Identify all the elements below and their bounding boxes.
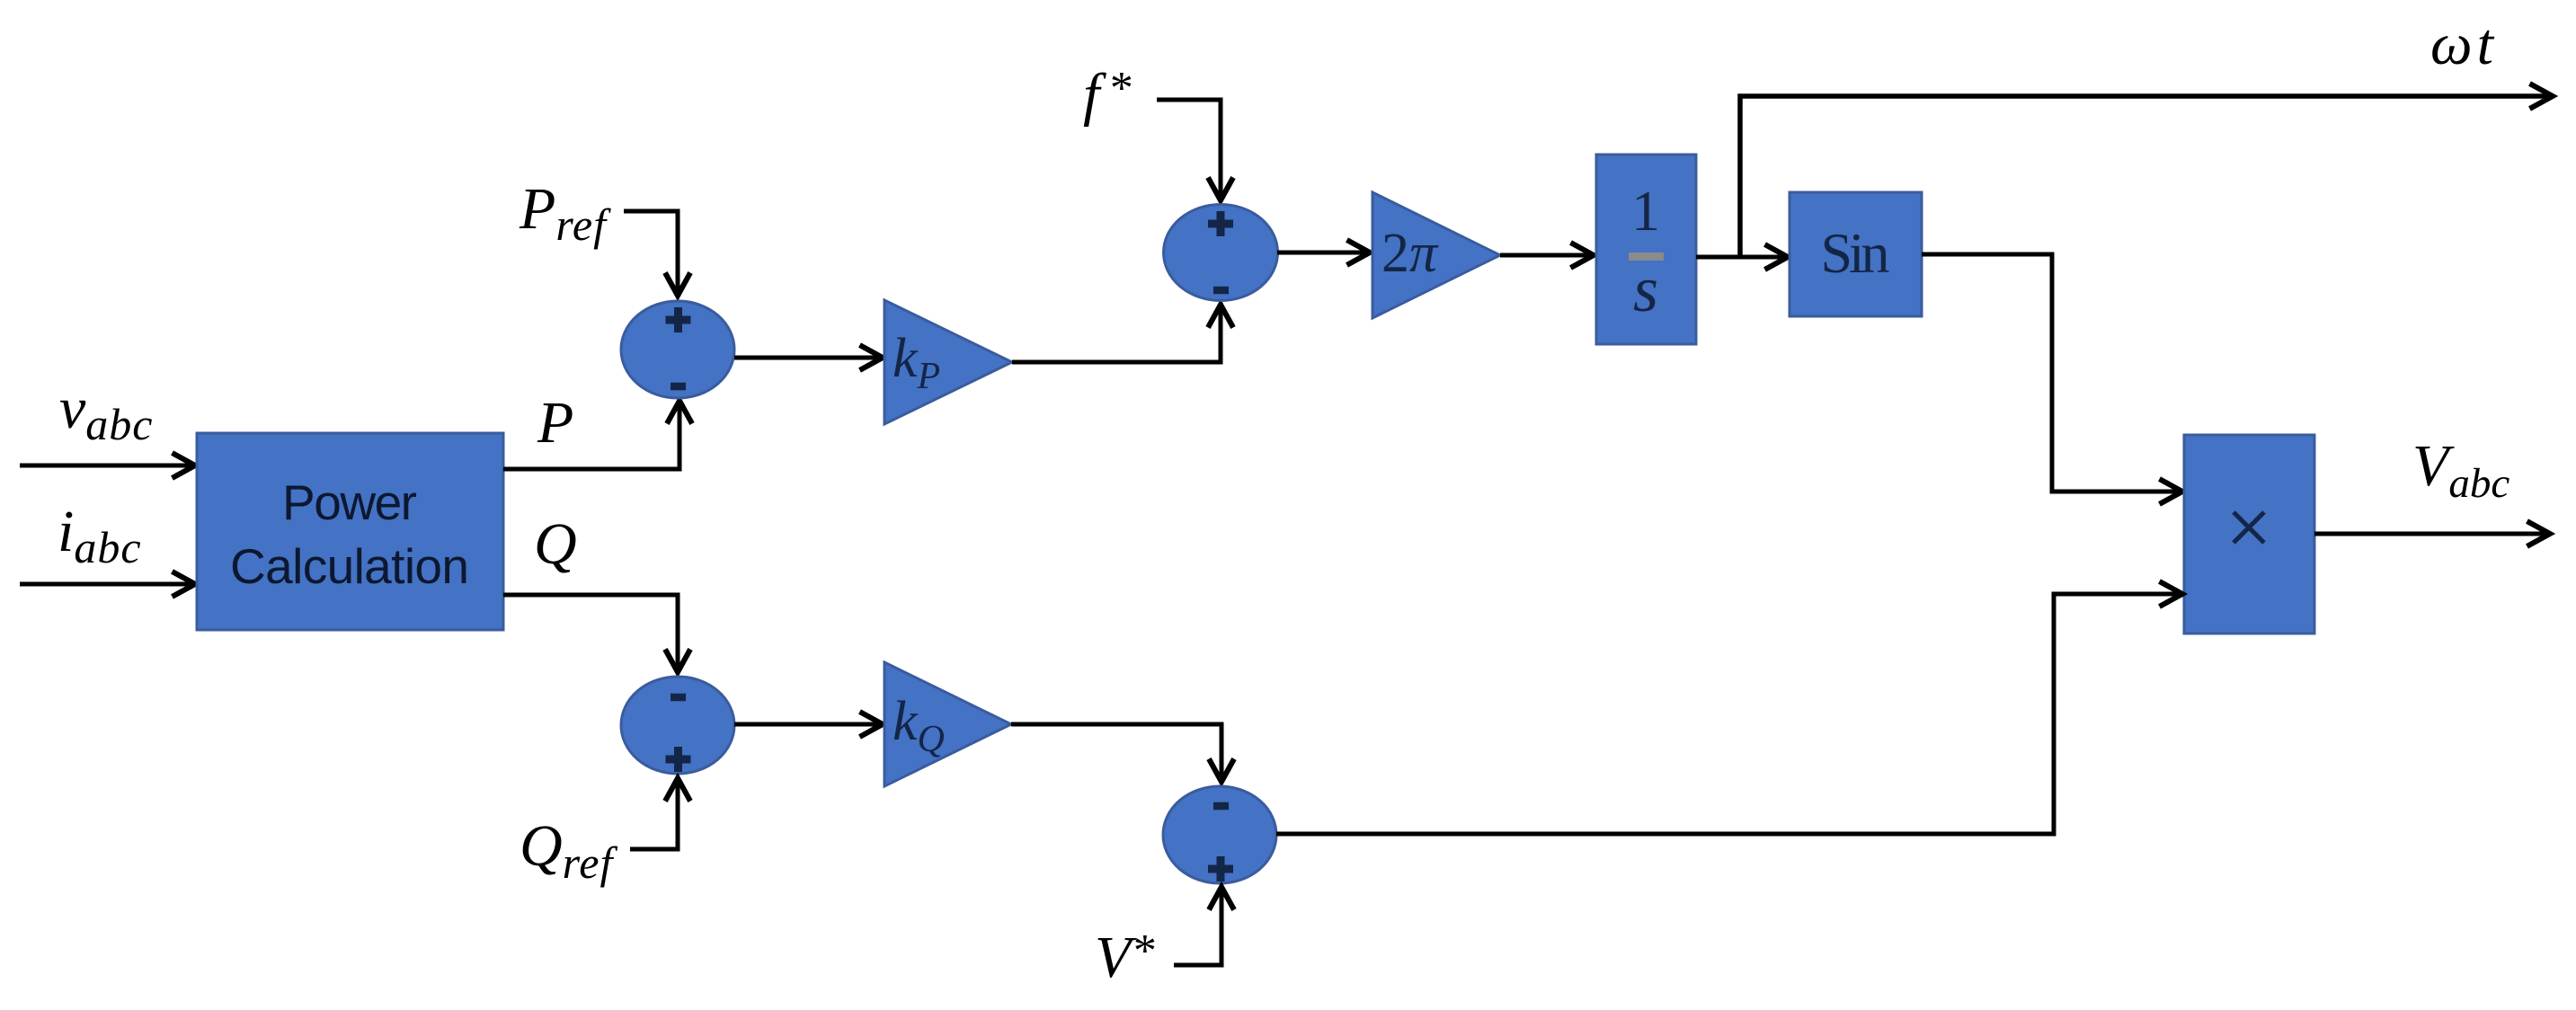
wire kQ output to summing node S4	[1011, 724, 1221, 783]
svg-text:Sin: Sin	[1821, 221, 1890, 285]
S3 minus sign	[671, 694, 686, 702]
wire kP output to summing node S2	[1012, 304, 1221, 362]
gain triangle 2pi	[1372, 192, 1500, 318]
gain triangle kP	[884, 300, 1012, 424]
svg-text:ωt: ωt	[2430, 12, 2495, 77]
svg-text:Vabc: Vabc	[2412, 433, 2509, 507]
S4 plus sign	[1208, 856, 1233, 882]
summing node S4 (V* - kQ out)	[1163, 786, 1276, 883]
wire junction branch to omega-t output	[1740, 96, 2554, 259]
S1 minus sign	[671, 383, 686, 391]
svg-text:2π: 2π	[1381, 223, 1439, 284]
svg-text:s: s	[1633, 253, 1658, 325]
wire i_abc input arrow	[20, 582, 196, 587]
svg-text:f*: f*	[1083, 62, 1131, 128]
multiplier cross symbol	[2234, 512, 2264, 543]
block multiplier X	[2184, 435, 2314, 633]
wire S2 output to gain 2pi	[1277, 251, 1371, 255]
svg-text:vabc: vabc	[59, 376, 154, 449]
wire P output to summing node S1	[503, 400, 680, 469]
S2 minus sign	[1213, 287, 1229, 295]
S2 plus sign	[1208, 211, 1233, 236]
svg-text:Power: Power	[282, 474, 417, 530]
svg-text:Calculation: Calculation	[230, 538, 469, 594]
S1 plus sign	[666, 307, 691, 332]
wire 2pi output to integrator	[1500, 253, 1594, 258]
svg-text:iabc: iabc	[58, 499, 142, 572]
wire S4 output to multiplier lower input	[1276, 594, 2183, 834]
wire f* input to summing node S2	[1157, 100, 1221, 201]
wire Sin output to multiplier upper input	[1922, 254, 2183, 492]
svg-text:1: 1	[1631, 179, 1660, 243]
summing node S1 (P_ref - P)	[621, 301, 734, 398]
svg-text:Q: Q	[534, 511, 577, 577]
wire integrator output to Sin	[1696, 255, 1789, 260]
wire S3 output to gain kQ	[734, 722, 884, 727]
integrator fraction bar	[1629, 252, 1664, 261]
S4 minus sign	[1213, 802, 1229, 811]
summing node S3 (Q_ref - Q)	[621, 677, 734, 774]
wire S1 output to gain kP	[734, 356, 884, 360]
block Power Calculation U1	[197, 433, 503, 630]
wire multiplier output V_abc	[2314, 532, 2551, 536]
gain triangle kQ	[884, 662, 1011, 786]
wire v_abc input arrow	[20, 464, 196, 468]
svg-text:Qref: Qref	[520, 813, 617, 888]
block integrator 1/s	[1596, 155, 1696, 344]
summing node S2 (f* - kP out)	[1164, 205, 1278, 301]
S3 plus sign	[666, 747, 691, 772]
wire Q_ref input to summing node S3	[630, 777, 678, 849]
svg-text:V*: V*	[1095, 925, 1154, 990]
svg-text:Pref: Pref	[519, 176, 611, 250]
block Sin	[1790, 192, 1922, 316]
wire V* input to summing node S4	[1174, 886, 1221, 965]
wire Q output to summing node S3	[503, 595, 678, 673]
svg-text:P: P	[537, 390, 573, 456]
wire P_ref input to summing node S1	[624, 211, 678, 297]
